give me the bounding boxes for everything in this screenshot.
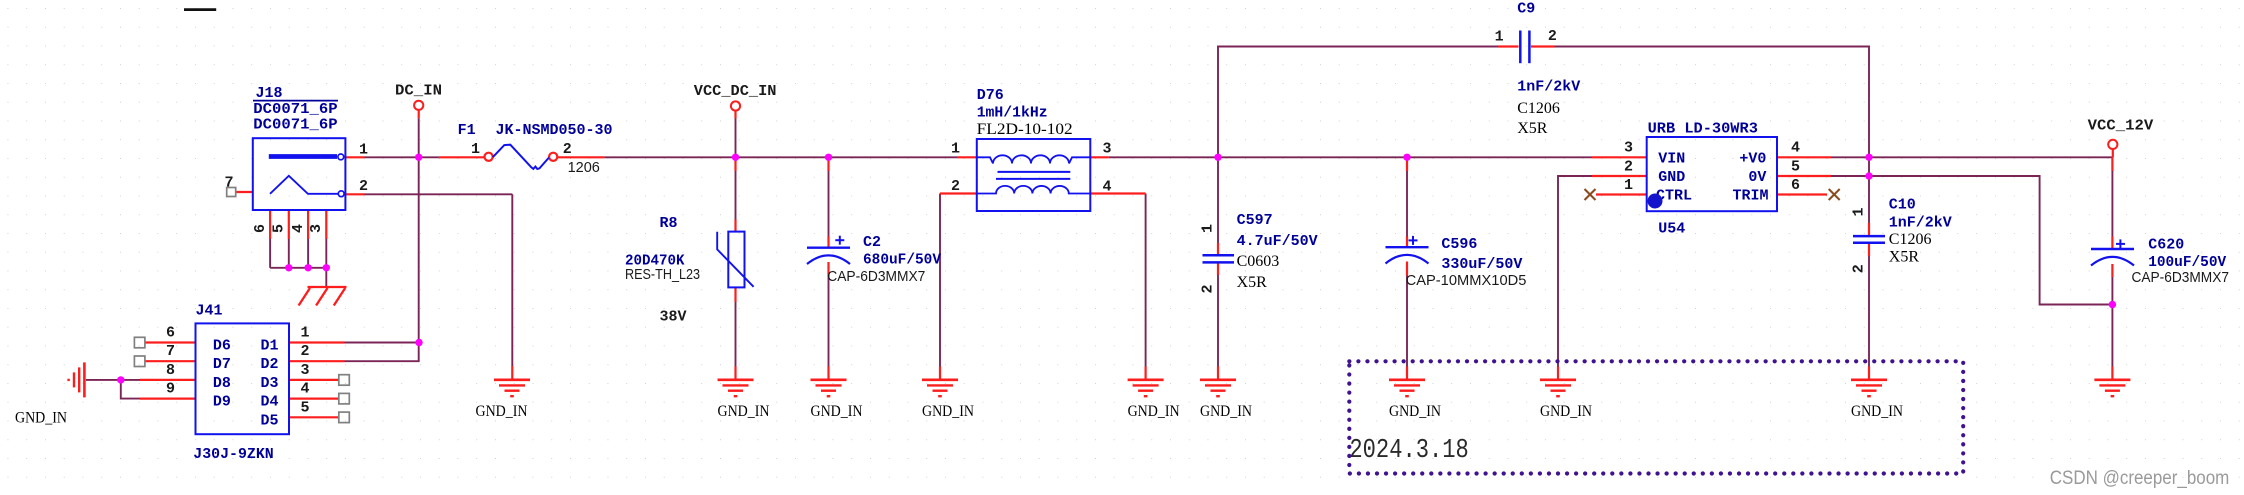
- pin stub J18.2 ground: [511, 366, 513, 380]
- choke D76 bottom winding: [977, 186, 1091, 194]
- svg-text:5: 5: [271, 224, 288, 233]
- wire C10 bottom: [1868, 256, 1870, 367]
- svg-text:1: 1: [951, 141, 960, 158]
- svg-text:D6: D6: [213, 338, 231, 355]
- no-connect X on TRIM: [1829, 189, 1840, 200]
- pin stub C596 top: [1406, 157, 1408, 171]
- svg-text:9: 9: [166, 381, 175, 398]
- svg-text:7: 7: [224, 175, 233, 192]
- wire main rail F1.2 to D76.1: [604, 156, 957, 158]
- pin stub R8 ground: [734, 367, 736, 380]
- capacitor C2 curved plate: [807, 255, 850, 264]
- J41 terminal square pin6: [134, 337, 145, 348]
- connector J18 box: [253, 138, 346, 210]
- svg-text:GND_IN: GND_IN: [718, 403, 770, 420]
- svg-text:1mH/1kHz: 1mH/1kHz: [977, 105, 1048, 122]
- wire C596 bottom: [1406, 276, 1408, 367]
- svg-text:J30J-9ZKN: J30J-9ZKN: [193, 446, 273, 463]
- choke D76 top lead: [977, 157, 993, 163]
- wire main rail J18.1 to F1.1: [365, 156, 439, 158]
- svg-text:DC0071_6P: DC0071_6P: [253, 101, 337, 118]
- wire J18 bottom bus: [270, 267, 326, 269]
- pin stub J41.6: [145, 341, 196, 343]
- svg-text:C10: C10: [1889, 197, 1916, 214]
- pin stub C2 plate: [827, 237, 829, 248]
- wire D76.2 down to ground: [939, 194, 941, 367]
- no-connect X on CTRL: [1585, 189, 1596, 200]
- capacitor C596 plate: [1386, 246, 1429, 248]
- svg-text:F1: F1: [458, 122, 476, 139]
- svg-text:URB LD-30WR3: URB LD-30WR3: [1648, 120, 1758, 137]
- pin stub J41.5: [289, 416, 339, 418]
- svg-text:100uF/50V: 100uF/50V: [2148, 254, 2226, 271]
- svg-text:GND_IN: GND_IN: [1389, 403, 1441, 420]
- svg-text:2: 2: [1200, 284, 1217, 293]
- pin stub C2 ground: [827, 367, 829, 380]
- junction (308.1,267.8): [304, 264, 311, 271]
- ground GND_IN x1145.6: [1128, 380, 1164, 396]
- junction (2112.4,304.5): [2109, 301, 2116, 308]
- varistor R8 diagonal: [717, 232, 753, 287]
- svg-text:FL2D-10-102: FL2D-10-102: [977, 121, 1073, 138]
- svg-text:3: 3: [1103, 141, 1112, 158]
- choke D76 top lead right: [1069, 157, 1090, 163]
- svg-text:D2: D2: [260, 356, 278, 373]
- wire DC_IN to J41.D2: [345, 360, 420, 362]
- svg-text:1: 1: [359, 142, 368, 159]
- fuse F1 pin1 circle: [485, 153, 493, 161]
- wire C597 top: [1217, 157, 1219, 243]
- svg-text:GND_IN: GND_IN: [1540, 403, 1592, 420]
- pin stubs J18 bottom 3-6: [270, 211, 326, 239]
- capacitor C9 plate2: [1528, 31, 1531, 64]
- svg-text:1: 1: [1495, 29, 1504, 46]
- junction (828.5,157.3): [825, 154, 832, 161]
- wire VCC_DC_IN drop: [735, 119, 737, 158]
- svg-text:2: 2: [1851, 264, 1868, 273]
- svg-text:D8: D8: [213, 375, 231, 392]
- svg-text:RES-TH_L23: RES-TH_L23: [625, 267, 700, 283]
- capacitor C10 plate1: [1853, 235, 1885, 238]
- wire C9 right leg: [1555, 47, 1870, 158]
- pin stub J41.2: [289, 360, 345, 362]
- svg-text:D9: D9: [213, 394, 231, 411]
- J18 name overline: [253, 100, 338, 102]
- pin stub C9.1: [1498, 45, 1518, 47]
- pin stub J41.4: [289, 398, 339, 400]
- svg-text:U54: U54: [1658, 221, 1685, 238]
- wire C596 top: [1406, 171, 1408, 237]
- C2 plus sign: [835, 236, 844, 245]
- junction (735.5,157.3): [732, 154, 739, 161]
- C596 plus sign: [1409, 236, 1418, 245]
- svg-text:VCC_12V: VCC_12V: [2088, 118, 2154, 135]
- svg-text:D4: D4: [260, 394, 278, 411]
- svg-text:D1: D1: [260, 338, 278, 355]
- svg-text:1206: 1206: [568, 160, 600, 176]
- ground GND_IN x1869: [1851, 380, 1887, 396]
- svg-text:4.7uF/50V: 4.7uF/50V: [1237, 233, 1318, 250]
- ground GND_IN x1407: [1389, 380, 1425, 396]
- pin stub C597 ground: [1217, 367, 1219, 380]
- svg-text:2: 2: [1548, 28, 1557, 45]
- svg-text:+V0: +V0: [1739, 150, 1766, 167]
- pin U54.1 CTRL: [1596, 193, 1647, 195]
- pin stub F1.2: [558, 156, 605, 158]
- pin stub U54 GND ground: [1557, 367, 1559, 380]
- capacitor C597 plate1: [1203, 254, 1235, 257]
- svg-text:6: 6: [166, 325, 175, 342]
- pin stub C620 ground: [2111, 367, 2113, 380]
- svg-text:GND_IN: GND_IN: [476, 403, 528, 420]
- pin stub J18.7: [235, 191, 252, 193]
- pin stub C596 plate: [1406, 237, 1408, 248]
- wire C2 bottom: [828, 276, 830, 367]
- J18 switch zigzag: [270, 176, 338, 194]
- pin stub C10 top: [1868, 223, 1870, 236]
- wire J18.2 horizontal: [365, 193, 513, 195]
- pin stub C596 ground: [1406, 367, 1408, 380]
- svg-text:4: 4: [1103, 179, 1112, 196]
- svg-text:8: 8: [166, 362, 175, 379]
- wire VCC_12V to C620: [2111, 171, 2113, 237]
- svg-text:1: 1: [300, 325, 309, 342]
- pin stub J41.8: [140, 379, 196, 381]
- pin stub C2 top: [827, 157, 829, 171]
- svg-text:GND_IN: GND_IN: [922, 403, 974, 420]
- pin stub DC_IN port: [418, 110, 420, 118]
- pin stub C620 bottom: [2111, 264, 2113, 277]
- pin stub D76.4 ground: [1144, 367, 1146, 380]
- svg-text:C596: C596: [1441, 236, 1477, 253]
- wire D76.4 down to ground: [1145, 194, 1147, 367]
- pin stub J41.3: [289, 379, 339, 381]
- ground GND_IN x828.5: [811, 380, 847, 396]
- svg-text:C9: C9: [1517, 1, 1535, 18]
- svg-text:2: 2: [359, 178, 368, 195]
- pin U54.4 +V0: [1777, 156, 1831, 158]
- svg-text:CSDN @creeper_boom: CSDN @creeper_boom: [2050, 468, 2230, 489]
- svg-text:4: 4: [1791, 140, 1800, 157]
- wire main rail D76.3 to U54.VIN: [1109, 156, 1592, 158]
- svg-text:2: 2: [300, 343, 309, 360]
- capacitor C10 plate2: [1853, 241, 1885, 244]
- wire J41 ground to D9: [121, 380, 140, 399]
- wire C597 bottom: [1217, 275, 1219, 367]
- pin stub D76.2 ground: [939, 367, 941, 380]
- capacitor C597 plate2: [1203, 261, 1235, 264]
- J18 barrel contact bar: [269, 154, 337, 159]
- pin U54.5 0V: [1777, 175, 1831, 177]
- pin stub R8 bottom: [734, 287, 736, 302]
- pin stub D76.4: [1090, 192, 1146, 194]
- svg-text:1: 1: [1624, 177, 1633, 194]
- pin stub J41.7: [145, 360, 196, 362]
- svg-text:GND_IN: GND_IN: [811, 403, 863, 420]
- pin stub C10 ground: [1868, 367, 1870, 380]
- connector J41 box: [196, 323, 290, 434]
- svg-text:X5R: X5R: [1889, 248, 1920, 265]
- pin stub D76.3: [1090, 156, 1109, 158]
- capacitor C9 plate1: [1519, 31, 1522, 64]
- svg-text:C2: C2: [863, 234, 881, 251]
- J41 terminal square pin4: [339, 393, 350, 404]
- wire J18.2 down to ground: [511, 194, 513, 366]
- capacitor C2 plate: [807, 246, 850, 248]
- junction (1218,157.3): [1214, 154, 1221, 161]
- junction (1869,176): [1865, 172, 1872, 179]
- wire C2 top: [828, 171, 830, 237]
- choke D76 box: [977, 139, 1091, 211]
- J18 pin2 open circle: [338, 191, 344, 197]
- svg-text:X5R: X5R: [1517, 120, 1548, 137]
- svg-text:C620: C620: [2148, 237, 2184, 254]
- fuse F1 element: [493, 145, 549, 169]
- svg-text:2: 2: [1624, 158, 1633, 175]
- svg-text:1: 1: [1200, 224, 1217, 233]
- svg-text:680uF/50V: 680uF/50V: [863, 252, 941, 269]
- svg-text:D3: D3: [260, 375, 278, 392]
- pin stub C620 top: [2111, 157, 2113, 171]
- pin stub C597 top: [1217, 243, 1219, 255]
- svg-text:4: 4: [300, 381, 309, 398]
- J41 terminal square pin7: [134, 356, 145, 367]
- port VCC_DC_IN circle: [731, 101, 740, 110]
- ground GND_IN x1558: [1540, 380, 1576, 396]
- pin stub C10 bottom: [1868, 243, 1870, 256]
- pin stub J18.2: [346, 193, 365, 195]
- pin stub VCC_DC_IN port: [734, 111, 736, 119]
- choke D76 top winding: [993, 155, 1069, 163]
- module U54 box: [1647, 137, 1777, 211]
- svg-text:J18: J18: [256, 85, 283, 102]
- ground GND_IN x512: [494, 380, 530, 396]
- svg-text:C1206: C1206: [1889, 231, 1932, 248]
- svg-text:1: 1: [1851, 207, 1868, 216]
- svg-text:D7: D7: [213, 356, 231, 373]
- junction (419,342.5): [415, 339, 422, 346]
- pin U54.2 GND: [1592, 175, 1647, 177]
- pin stub D76.1: [957, 156, 977, 158]
- svg-text:X5R: X5R: [1237, 274, 1268, 291]
- svg-text:C0603: C0603: [1237, 253, 1280, 270]
- svg-text:5: 5: [1791, 158, 1800, 175]
- pin stub C2 bottom: [827, 262, 829, 276]
- pin stub R8 top: [734, 157, 736, 171]
- pin stub R8 to box: [734, 220, 736, 232]
- ground GND_IN left rotated: [69, 362, 85, 397]
- pin stub C596 bottom: [1406, 262, 1408, 276]
- svg-text:2: 2: [563, 141, 572, 158]
- svg-text:CAP-6D3MMX7: CAP-6D3MMX7: [827, 269, 925, 285]
- J18 pin7 terminal square: [227, 188, 236, 197]
- svg-text:GND_IN: GND_IN: [1851, 403, 1903, 420]
- J41 terminal square pin5: [339, 412, 350, 423]
- junction (288.8,267.8): [285, 264, 292, 271]
- wire R8 bottom: [735, 302, 737, 367]
- wire junction to ground x2112: [2111, 305, 2113, 367]
- svg-text:5: 5: [300, 399, 309, 416]
- pin U54.3 VIN: [1592, 156, 1647, 158]
- pin stub C9.2: [1531, 45, 1555, 47]
- pin stub VCC_12V port: [2112, 149, 2114, 157]
- wire J18 bus to chassis: [325, 268, 327, 287]
- capacitor C596 curved plate: [1386, 255, 1429, 264]
- svg-text:1nF/2kV: 1nF/2kV: [1889, 215, 1952, 232]
- wire 0V net: [1831, 176, 2112, 305]
- pin stub J41.1: [289, 341, 345, 343]
- svg-text:GND_IN: GND_IN: [1128, 403, 1180, 420]
- svg-text:DC_IN: DC_IN: [395, 83, 442, 100]
- svg-text:D5: D5: [260, 412, 278, 429]
- wire C620 to junction: [2111, 277, 2113, 305]
- pin U54.6 TRIM: [1777, 193, 1827, 195]
- svg-text:1nF/2kV: 1nF/2kV: [1517, 79, 1580, 96]
- varistor R8 body: [728, 232, 744, 288]
- svg-text:6: 6: [1791, 177, 1800, 194]
- svg-text:2024.3.18: 2024.3.18: [1349, 436, 1468, 466]
- wire +V0 rail to VCC_12V: [1831, 156, 2113, 158]
- svg-text:D76: D76: [977, 87, 1004, 104]
- pin stub C620 plate: [2111, 237, 2113, 250]
- choke D76 core line1: [998, 171, 1071, 173]
- svg-text:GND_IN: GND_IN: [1200, 403, 1252, 420]
- svg-text:TRIM: TRIM: [1732, 188, 1768, 205]
- wires J18 bottom 3-6 lower: [270, 239, 326, 268]
- wire DC_IN vertical: [418, 118, 420, 361]
- wire J41 ground horizontal: [86, 379, 140, 381]
- wire R8 top: [735, 171, 737, 220]
- svg-text:DC0071_6P: DC0071_6P: [253, 116, 337, 133]
- svg-text:38V: 38V: [660, 309, 687, 326]
- svg-text:C1206: C1206: [1517, 100, 1560, 117]
- ground GND_IN x1218: [1200, 380, 1236, 396]
- svg-text:2: 2: [951, 178, 960, 195]
- chassis ground: [299, 287, 347, 306]
- dotted annotation box: [1349, 361, 1963, 473]
- top-left dash mark: [184, 8, 216, 11]
- svg-text:J41: J41: [196, 303, 223, 320]
- svg-text:GND: GND: [1658, 169, 1685, 186]
- wire J41.D1 link: [345, 342, 420, 344]
- capacitor C620 curved plate: [2091, 257, 2134, 266]
- junction (1869,157.3): [1865, 154, 1872, 161]
- svg-text:JK-NSMD050-30: JK-NSMD050-30: [496, 122, 613, 139]
- svg-text:7: 7: [166, 343, 175, 360]
- choke D76 core line2: [996, 178, 1070, 180]
- wire U54 GND net: [1558, 176, 1592, 367]
- junction (326.3,267.8): [323, 264, 330, 271]
- svg-text:3: 3: [1624, 140, 1633, 157]
- fuse F1 pin2 circle: [549, 153, 557, 161]
- svg-text:3: 3: [308, 224, 325, 233]
- svg-text:CAP-10MMX10D5: CAP-10MMX10D5: [1406, 273, 1527, 289]
- junction (418.7,157.3): [415, 154, 422, 161]
- svg-text:330uF/50V: 330uF/50V: [1441, 256, 1522, 273]
- svg-text:CAP-6D3MMX7: CAP-6D3MMX7: [2132, 270, 2230, 286]
- svg-text:C597: C597: [1237, 212, 1273, 229]
- svg-text:1: 1: [471, 141, 480, 158]
- J41 terminal square pin3: [339, 375, 350, 386]
- svg-text:4: 4: [290, 224, 307, 233]
- svg-text:0V: 0V: [1748, 169, 1766, 186]
- svg-text:6: 6: [252, 224, 269, 233]
- port VCC_12V circle: [2108, 140, 2117, 149]
- ground GND_IN x940: [922, 380, 958, 396]
- capacitor C620 plate: [2091, 248, 2134, 250]
- pin stub D76.2: [940, 192, 977, 194]
- svg-text:VIN: VIN: [1658, 150, 1685, 167]
- J18 pin1 open circle: [338, 154, 344, 160]
- ground GND_IN x735.5: [718, 380, 754, 396]
- wire C9 left leg: [1218, 47, 1499, 158]
- port DC_IN circle: [414, 101, 423, 110]
- svg-text:VCC_DC_IN: VCC_DC_IN: [694, 83, 777, 100]
- pin stub F1.1: [439, 156, 484, 158]
- wire junction column x1869: [1868, 157, 1870, 223]
- ground x2112 (unlabeled): [2094, 380, 2130, 396]
- junction (120.8,379.9): [117, 376, 124, 383]
- junction (1407,157.3): [1403, 154, 1410, 161]
- svg-text:R8: R8: [660, 215, 678, 232]
- C620 plus sign: [2116, 239, 2125, 248]
- pin stub J41.9: [140, 398, 196, 400]
- svg-text:3: 3: [300, 362, 309, 379]
- pin stub J18.1: [346, 156, 365, 158]
- svg-text:GND_IN: GND_IN: [15, 410, 67, 427]
- pin stub C597 bottom: [1217, 262, 1219, 275]
- U54 CTRL blue blob: [1648, 194, 1663, 209]
